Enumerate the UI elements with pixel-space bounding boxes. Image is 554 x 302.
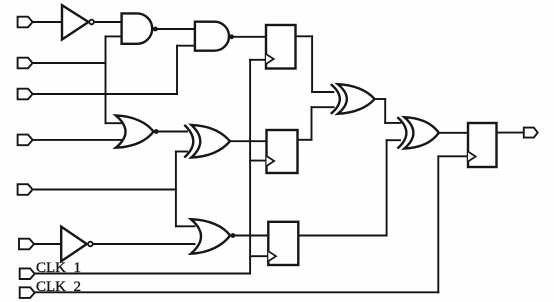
OR G6 output dot xyxy=(231,233,236,238)
wire XOR G5 output vertical drop xyxy=(384,99,386,123)
input pin 3 xyxy=(18,89,33,100)
FF3 clock triangle xyxy=(468,152,476,162)
wire XOR G7 output to flip-flop FF3 D input xyxy=(439,132,469,134)
wire pin1 to inverter U1 xyxy=(32,21,61,23)
wire CLK 2 to FF3 clock xyxy=(438,155,468,157)
FF4 clock triangle xyxy=(268,251,276,261)
wire AND G2 output to flip-flop FF1 D input xyxy=(229,36,267,38)
OR G3 output dot xyxy=(154,129,159,134)
XOR gate G7 input arc xyxy=(397,117,406,148)
XOR gate G7 body xyxy=(404,117,438,148)
input pin 4 xyxy=(18,135,33,146)
wire CLK 1 branch to FF2 clock xyxy=(250,160,267,162)
wire CLK 1 to FF1 clock xyxy=(250,59,266,61)
wire net C vertical (XOR G4 lower input to OR G6 upper input) xyxy=(175,152,177,227)
wire pin3 vertical riser xyxy=(176,46,178,94)
NAND G1 output dot xyxy=(153,27,158,32)
inverter U1 xyxy=(62,5,89,39)
wire FF4 Q output horizontal xyxy=(298,235,387,237)
wire FF4 Q to XOR G7 bottom input xyxy=(387,139,400,141)
wire pin6 to inverter U2 xyxy=(32,243,61,245)
wire FF1 Q output horizontal xyxy=(296,35,313,37)
wire CLK 1 branch to FF4 clock xyxy=(250,255,269,257)
wire inverter U2 output to OR G6 bottom input xyxy=(93,243,195,245)
wire CLK 1 vertical rail xyxy=(249,60,251,274)
input pin CLK 2 xyxy=(20,287,35,298)
wire FF3 Q output to output pin xyxy=(497,132,525,134)
wire CLK 2 vertical riser xyxy=(437,156,439,292)
wire pin5 horizontal xyxy=(32,189,176,191)
flip-flop FF1 xyxy=(266,25,296,69)
FF2 clock triangle xyxy=(267,156,275,166)
flip-flop FF4 xyxy=(268,222,298,265)
AND G2 output dot xyxy=(229,34,234,39)
NAND gate G1 xyxy=(122,13,153,43)
wire FF2 Q to XOR G5 bottom input xyxy=(312,106,334,108)
wire FF1 Q to XOR G5 top input xyxy=(312,91,333,93)
wire net B to NAND G1 bottom input xyxy=(106,35,123,37)
svg-text:CLK_1: CLK_1 xyxy=(36,260,81,276)
wire net B vertical xyxy=(105,36,107,123)
wire NAND G1 output to AND G2 top input xyxy=(157,28,196,30)
wire FF2 Q output horizontal xyxy=(298,139,312,141)
wire CLK 2 horizontal rail xyxy=(35,291,438,293)
input pin CLK 1 xyxy=(20,268,35,279)
wire net C to XOR G4 bottom input xyxy=(176,151,187,153)
OR gate G6 xyxy=(191,219,230,254)
input pin 6 xyxy=(19,239,34,250)
wire pin3 to AND G2 bottom input xyxy=(177,45,196,47)
flip-flop FF2 xyxy=(267,130,298,173)
inverter U2 bubble xyxy=(88,242,93,247)
wire net C to OR G6 top input xyxy=(176,225,195,227)
wire pin4 to OR G3 bottom input xyxy=(32,139,123,141)
input pin 5 xyxy=(18,184,33,195)
wire XOR G4 output to flip-flop FF2 D input xyxy=(230,140,267,142)
wire inverter U1 output to NAND G1 top input xyxy=(94,21,123,23)
wire OR G6 output to flip-flop FF4 D input xyxy=(230,235,269,237)
wire net B to OR G3 top input xyxy=(106,122,124,124)
input pin 1 xyxy=(18,17,33,28)
OR gate G3 xyxy=(116,115,154,147)
wire OR G3 output to XOR G4 top input xyxy=(154,131,188,133)
XOR gate G4 body xyxy=(191,125,230,158)
wire pin2 to vertical net B xyxy=(32,62,105,64)
AND gate G2 xyxy=(195,22,229,51)
wire CLK 1 horizontal rail xyxy=(35,273,250,275)
wire FF4 Q vertical riser xyxy=(386,140,388,235)
FF1 clock triangle xyxy=(266,54,274,64)
wire FF1 Q vertical drop xyxy=(311,36,313,92)
output pin xyxy=(524,128,538,138)
XOR gate G5 input arc xyxy=(331,84,340,114)
flip-flop FF3 xyxy=(468,123,497,167)
svg-text:CLK_2: CLK_2 xyxy=(36,279,81,295)
wire XOR G5 output to XOR G7 top input xyxy=(385,122,400,124)
wire XOR G5 output horizontal xyxy=(375,98,386,100)
inverter U1 bubble xyxy=(89,20,94,25)
wire pin3 horizontal xyxy=(32,93,177,95)
XOR gate G4 input arc xyxy=(184,125,193,158)
wire FF2 Q vertical riser xyxy=(311,107,313,140)
XOR gate G5 body xyxy=(338,84,375,114)
inverter U2 xyxy=(61,227,87,262)
input pin 2 xyxy=(18,58,33,69)
